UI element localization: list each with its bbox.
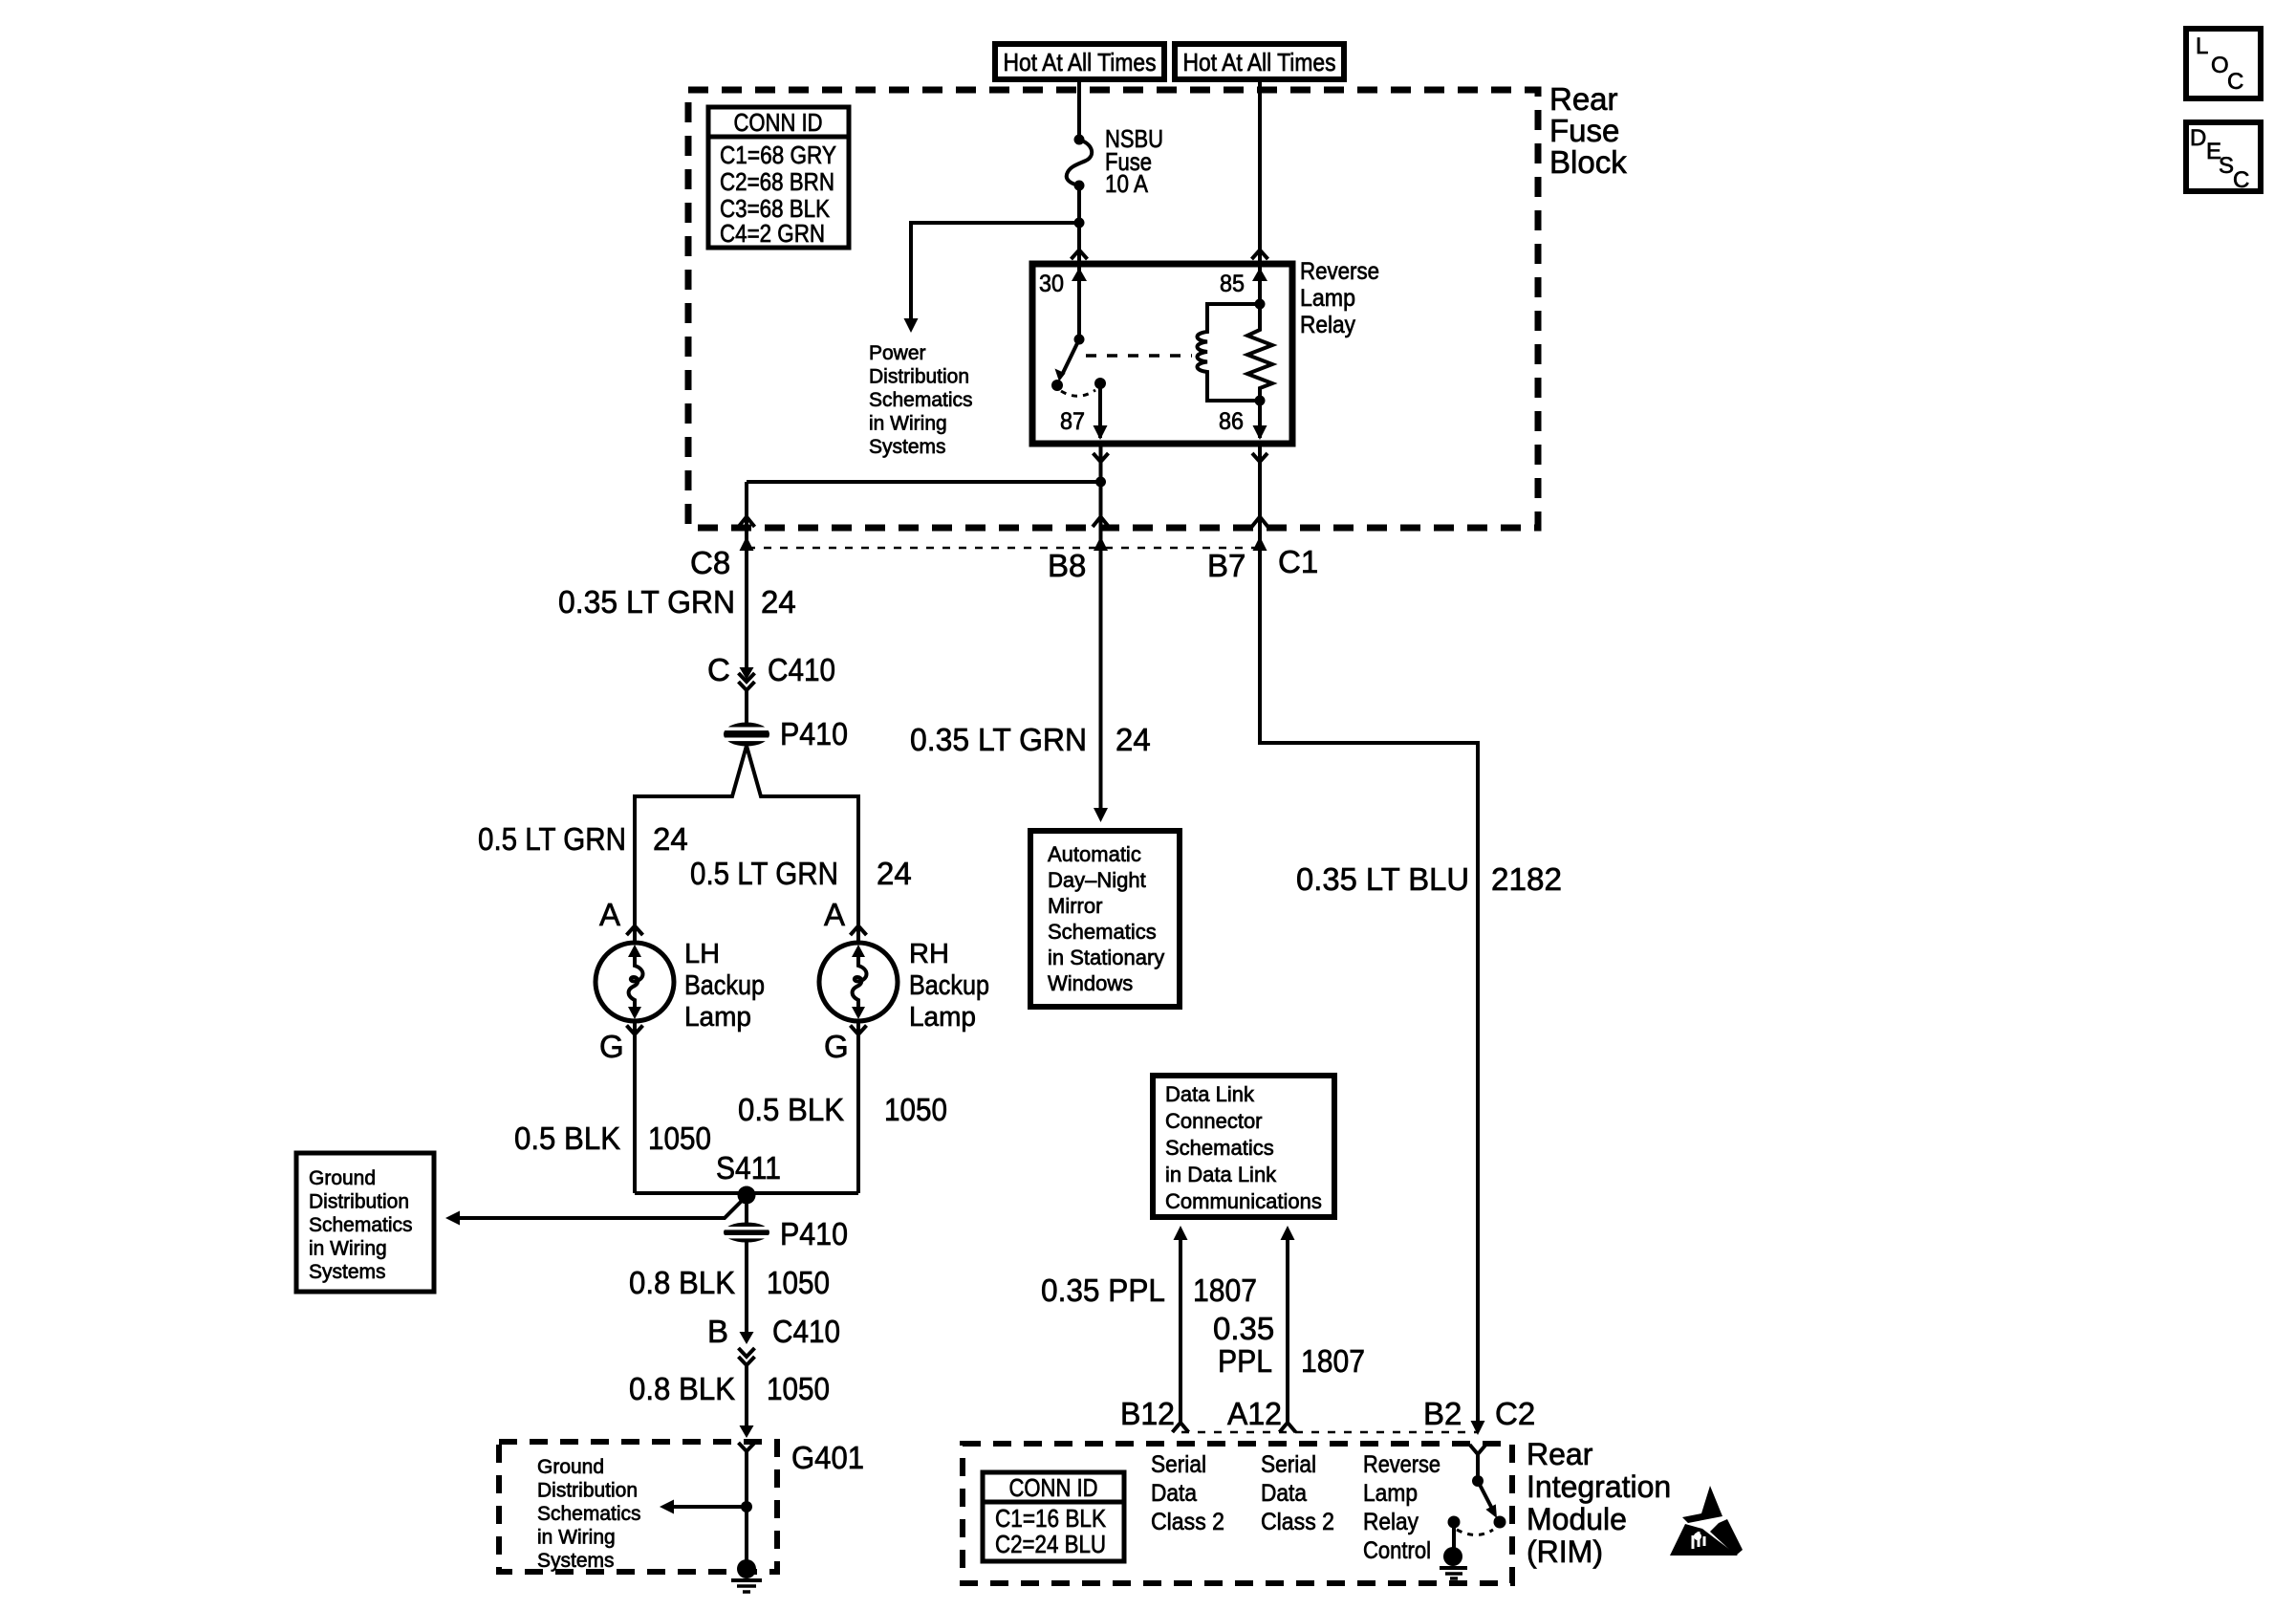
fuse NSBU 10A xyxy=(1067,124,1163,198)
relay resistor xyxy=(1247,304,1272,401)
svg-text:2182: 2182 xyxy=(1491,861,1562,897)
svg-text:C1=16 BLK: C1=16 BLK xyxy=(995,1504,1107,1533)
svg-text:Data: Data xyxy=(1151,1480,1197,1507)
svg-text:Ground: Ground xyxy=(309,1167,376,1189)
svg-text:Integration: Integration xyxy=(1527,1469,1671,1504)
svg-text:Distribution: Distribution xyxy=(309,1191,409,1213)
svg-text:Communications: Communications xyxy=(1165,1189,1322,1213)
svg-text:A: A xyxy=(824,897,845,932)
wire B12 serial data up to data link box xyxy=(1179,1239,1182,1422)
wire P410 to C410 lower xyxy=(745,1242,748,1332)
svg-text:C410: C410 xyxy=(768,652,835,687)
reverse lamp relay label xyxy=(1300,258,1379,338)
svg-text:86: 86 xyxy=(1219,408,1244,435)
wire hot2 down to relay pin 85 xyxy=(1258,79,1262,267)
svg-text:C: C xyxy=(707,652,730,687)
svg-text:Ground: Ground xyxy=(537,1456,604,1478)
junction node below fuse xyxy=(1074,218,1085,228)
svg-text:Distribution: Distribution xyxy=(869,366,969,388)
chevron at RH lamp pin A xyxy=(851,926,867,936)
svg-text:RH: RH xyxy=(909,939,949,969)
grommet P410 (upper) xyxy=(724,723,769,747)
svg-text:0.35 LT GRN: 0.35 LT GRN xyxy=(910,722,1087,757)
connector line (thin dashed) B12-A12-B2 xyxy=(1181,1431,1478,1434)
svg-text:Connector: Connector xyxy=(1165,1109,1263,1133)
svg-text:0.35 LT GRN: 0.35 LT GRN xyxy=(558,584,735,620)
relay contact dot 87 xyxy=(1094,378,1106,389)
RIM switch throw dashed arc xyxy=(1457,1530,1493,1535)
wire A12 serial data up to data link box xyxy=(1286,1239,1289,1422)
grommet P410 (lower) xyxy=(724,1223,769,1243)
svg-text:CONN ID: CONN ID xyxy=(734,108,823,137)
connector line (thin dashed) C8-B8-B7 xyxy=(747,547,1260,550)
svg-text:C2=68 BRN: C2=68 BRN xyxy=(720,167,834,196)
label serial data class 2 (B12) xyxy=(1151,1451,1224,1535)
arrow to ground distribution schematics (S411) xyxy=(445,1211,460,1226)
svg-text:C4=2 GRN: C4=2 GRN xyxy=(720,219,825,248)
RIM switch pivot dot xyxy=(1472,1475,1484,1487)
label serial data class 2 (A12) xyxy=(1261,1451,1334,1535)
ground distribution dashed box G401 xyxy=(499,1442,777,1572)
svg-text:10 A: 10 A xyxy=(1105,169,1149,198)
svg-text:D: D xyxy=(2190,125,2206,151)
chevron at fuse block border C8 xyxy=(739,517,755,528)
svg-text:CONN ID: CONN ID xyxy=(1009,1473,1098,1502)
RIM switch arm with arrow xyxy=(1478,1481,1492,1509)
svg-text:Module: Module xyxy=(1527,1502,1627,1536)
chevron below relay pin 86 xyxy=(1252,453,1267,462)
svg-text:30: 30 xyxy=(1039,271,1064,297)
svg-text:0.5 LT GRN: 0.5 LT GRN xyxy=(478,821,626,857)
chevron below relay pin 87 xyxy=(1094,453,1109,462)
svg-text:O: O xyxy=(2211,53,2229,78)
wire relay 86 down through B7 then right and down to RIM C2 xyxy=(1260,444,1478,1421)
hot at all times box 2 xyxy=(1175,44,1344,79)
chevron at RIM border B12 xyxy=(1173,1423,1189,1432)
svg-text:Lamp: Lamp xyxy=(1300,285,1355,312)
svg-text:L: L xyxy=(2196,33,2208,59)
svg-text:C410: C410 xyxy=(772,1314,840,1349)
wire LH lamp down to S411 bus xyxy=(633,1021,637,1193)
relay contact dot 87a xyxy=(1051,380,1063,391)
chevron at LH lamp pin G xyxy=(627,1026,643,1035)
relay switch pivot xyxy=(1074,335,1085,345)
svg-text:in Wiring: in Wiring xyxy=(309,1238,387,1260)
svg-text:85: 85 xyxy=(1220,271,1245,297)
svg-text:Fuse: Fuse xyxy=(1549,113,1619,148)
svg-text:in Stationary: in Stationary xyxy=(1048,946,1164,969)
conn id table (RIM) xyxy=(983,1472,1124,1561)
svg-text:0.35 PPL: 0.35 PPL xyxy=(1041,1273,1165,1308)
svg-text:24: 24 xyxy=(653,821,688,857)
relay box (reverse lamp relay) xyxy=(1032,264,1292,444)
label LH backup lamp xyxy=(684,939,765,1033)
relay switch arm with arrow xyxy=(1063,339,1079,373)
wire relay 87 down through B8 to mirror arrow xyxy=(1099,444,1103,809)
desc reference box xyxy=(2186,122,2261,193)
chevron at LH lamp pin A xyxy=(627,926,643,936)
svg-text:Rear: Rear xyxy=(1527,1437,1593,1471)
svg-text:S411: S411 xyxy=(716,1150,781,1186)
chevron below RIM border C2 xyxy=(1470,1445,1486,1454)
svg-text:0.8 BLK: 0.8 BLK xyxy=(629,1371,735,1406)
svg-text:S: S xyxy=(2219,153,2234,179)
svg-text:B7: B7 xyxy=(1207,548,1245,583)
svg-text:0.8 BLK: 0.8 BLK xyxy=(629,1265,735,1300)
svg-text:in Wiring: in Wiring xyxy=(869,413,947,435)
junction node B8/C8 xyxy=(1095,477,1106,488)
ground symbol G401 xyxy=(731,1559,762,1592)
arrow to power distribution schematics xyxy=(904,318,919,333)
svg-text:Backup: Backup xyxy=(684,970,765,1001)
svg-text:G: G xyxy=(599,1029,624,1064)
wire junction left to C8 drop xyxy=(747,480,1101,484)
loc reference box xyxy=(2186,29,2261,98)
svg-text:Rear: Rear xyxy=(1549,81,1618,117)
relay pin 30 arrow up xyxy=(1077,267,1081,339)
wire RH lamp down to S411 bus xyxy=(856,1021,860,1193)
RIM switch moving contact dot xyxy=(1494,1516,1506,1529)
power distribution schematics text xyxy=(869,342,973,458)
svg-text:0.5 LT GRN: 0.5 LT GRN xyxy=(690,856,838,891)
svg-text:87: 87 xyxy=(1060,408,1085,435)
svg-text:1050: 1050 xyxy=(767,1371,830,1406)
svg-text:Power: Power xyxy=(869,342,926,364)
rear integration module dashed box xyxy=(963,1444,1512,1583)
svg-text:Schematics: Schematics xyxy=(869,389,973,411)
ground symbol RIM xyxy=(1440,1547,1467,1578)
svg-text:B2: B2 xyxy=(1423,1396,1462,1431)
wire C2 to switch xyxy=(1476,1454,1480,1481)
svg-text:A: A xyxy=(599,897,620,932)
svg-text:Control: Control xyxy=(1363,1537,1431,1564)
svg-text:1050: 1050 xyxy=(884,1092,947,1127)
svg-text:Hot At All Times: Hot At All Times xyxy=(1004,48,1157,76)
rear integration module (RIM) label xyxy=(1527,1437,1671,1569)
relay pin 85 arrow up xyxy=(1252,268,1267,281)
wire C410 to G401 xyxy=(745,1365,748,1425)
svg-text:Block: Block xyxy=(1549,144,1627,180)
wire junction to power distribution arrow xyxy=(911,223,1079,319)
svg-text:Lamp: Lamp xyxy=(1363,1480,1418,1507)
arrow into G401 xyxy=(740,1425,754,1438)
svg-text:1050: 1050 xyxy=(767,1265,830,1300)
svg-text:Data Link: Data Link xyxy=(1165,1082,1255,1106)
svg-text:Hot At All Times: Hot At All Times xyxy=(1183,48,1336,76)
svg-text:Reverse: Reverse xyxy=(1363,1451,1440,1478)
svg-text:1050: 1050 xyxy=(648,1120,711,1156)
svg-text:Data: Data xyxy=(1261,1480,1307,1507)
svg-text:LH: LH xyxy=(684,939,720,969)
svg-text:in Wiring: in Wiring xyxy=(537,1527,616,1549)
wire inside G401 down to ground xyxy=(745,1451,748,1560)
wire split below P410 to both backup lamps xyxy=(635,746,858,943)
relay switch throw dashed arc xyxy=(1061,390,1095,396)
svg-text:C2: C2 xyxy=(1495,1396,1535,1431)
wire S411 down to P410 lower xyxy=(745,1195,748,1223)
wire C410 to P410 xyxy=(745,690,748,723)
arrow B8 into mirror box xyxy=(1094,808,1108,822)
chevron at RIM border A12 xyxy=(1280,1423,1296,1432)
svg-text:Automatic: Automatic xyxy=(1048,842,1141,866)
wire C8 down to connector C410 xyxy=(745,482,748,668)
svg-text:in Data Link: in Data Link xyxy=(1165,1163,1277,1186)
svg-text:0.35: 0.35 xyxy=(1213,1311,1274,1346)
chevron at fuse block border B8 xyxy=(1093,517,1109,528)
svg-text:B12: B12 xyxy=(1120,1396,1175,1431)
svg-text:Schematics: Schematics xyxy=(537,1503,641,1525)
svg-text:24: 24 xyxy=(761,584,796,620)
relay mechanical link dashed line xyxy=(1086,354,1192,358)
svg-text:24: 24 xyxy=(1116,722,1151,757)
in-line connector C410 arrow and chevrons xyxy=(740,667,754,680)
svg-text:Relay: Relay xyxy=(1363,1509,1419,1535)
rear fuse block dashed border xyxy=(688,90,1538,528)
svg-text:G401: G401 xyxy=(791,1440,864,1475)
relay pin 86 arrow down xyxy=(1258,401,1262,438)
svg-text:Lamp: Lamp xyxy=(909,1002,976,1033)
svg-text:Class 2: Class 2 xyxy=(1261,1509,1334,1535)
splice S411 xyxy=(738,1186,756,1205)
wire hot1 down to fuse xyxy=(1077,79,1081,140)
arrow left inside G401 xyxy=(673,1505,747,1509)
wire S411 diagonal to ground distribution arrow xyxy=(459,1201,742,1218)
in-line connector C410 lower arrow and chevrons xyxy=(740,1332,754,1344)
svg-text:PPL: PPL xyxy=(1218,1343,1272,1379)
svg-text:0.5 BLK: 0.5 BLK xyxy=(514,1120,620,1156)
wire fuse to junction and relay pin 30 xyxy=(1077,185,1081,264)
svg-text:C: C xyxy=(2227,69,2243,95)
svg-text:P410: P410 xyxy=(780,716,848,751)
svg-text:C: C xyxy=(2233,167,2249,193)
conn id table (rear fuse block) xyxy=(708,107,849,248)
label reverse lamp relay control xyxy=(1363,1451,1440,1564)
chevron at relay pin 30 xyxy=(1072,250,1088,260)
relay coil xyxy=(1198,304,1261,401)
rear fuse block label xyxy=(1549,81,1627,180)
RIM switch fixed contact dot xyxy=(1448,1516,1461,1529)
svg-text:C2=24 BLU: C2=24 BLU xyxy=(995,1530,1106,1558)
ground bus to splice S411 xyxy=(635,1191,858,1195)
relay pin 87 arrow down xyxy=(1098,383,1102,438)
svg-text:Serial: Serial xyxy=(1151,1451,1206,1478)
svg-text:Relay: Relay xyxy=(1300,312,1355,338)
svg-text:Systems: Systems xyxy=(309,1261,386,1283)
chevron at G401 border xyxy=(739,1443,755,1451)
svg-text:Serial: Serial xyxy=(1261,1451,1316,1478)
svg-text:C1=68 GRY: C1=68 GRY xyxy=(720,141,836,169)
svg-text:Reverse: Reverse xyxy=(1300,258,1379,285)
svg-text:1807: 1807 xyxy=(1301,1343,1365,1379)
svg-text:Distribution: Distribution xyxy=(537,1480,638,1502)
junction node in G401 xyxy=(741,1501,752,1512)
arrow C2 into RIM xyxy=(1471,1421,1485,1435)
arrow up below border B7 xyxy=(1253,536,1267,551)
svg-text:24: 24 xyxy=(877,856,912,891)
svg-text:0.5 BLK: 0.5 BLK xyxy=(738,1092,844,1127)
svg-text:Systems: Systems xyxy=(537,1550,615,1572)
svg-text:Backup: Backup xyxy=(909,970,989,1001)
svg-text:Schematics: Schematics xyxy=(309,1214,413,1236)
ESD sensitive device symbol xyxy=(1670,1486,1743,1556)
hot at all times box 1 xyxy=(995,44,1164,79)
svg-text:Class 2: Class 2 xyxy=(1151,1509,1224,1535)
svg-text:B8: B8 xyxy=(1048,548,1086,583)
svg-text:Windows: Windows xyxy=(1048,971,1133,995)
LH backup lamp xyxy=(596,943,674,1021)
svg-text:Schematics: Schematics xyxy=(1165,1136,1274,1160)
svg-text:Mirror: Mirror xyxy=(1048,894,1102,918)
svg-text:C8: C8 xyxy=(690,545,730,580)
svg-text:C1: C1 xyxy=(1278,544,1318,579)
label RH backup lamp xyxy=(909,939,989,1033)
svg-text:P410: P410 xyxy=(780,1216,848,1251)
wire contact to ground (RIM) xyxy=(1452,1522,1456,1550)
chevron at RH lamp pin G xyxy=(851,1026,867,1035)
svg-text:(RIM): (RIM) xyxy=(1527,1534,1603,1569)
data link connector box xyxy=(1153,1076,1334,1217)
automatic day-night mirror box xyxy=(1030,831,1180,1007)
svg-text:G: G xyxy=(824,1029,849,1064)
svg-text:B: B xyxy=(707,1314,728,1349)
svg-text:A12: A12 xyxy=(1227,1396,1282,1431)
svg-text:0.35 LT BLU: 0.35 LT BLU xyxy=(1296,861,1469,897)
arrow up below border C8 xyxy=(740,536,754,551)
arrow up below border B8 xyxy=(1094,536,1108,551)
svg-text:1807: 1807 xyxy=(1193,1273,1257,1308)
svg-text:Schematics: Schematics xyxy=(1048,920,1157,944)
chevron at fuse block border B7 xyxy=(1252,517,1268,528)
svg-text:Systems: Systems xyxy=(869,436,946,458)
svg-text:Day–Night: Day–Night xyxy=(1048,868,1146,892)
svg-text:Lamp: Lamp xyxy=(684,1002,751,1033)
ground distribution schematics box (solid) xyxy=(296,1153,434,1292)
chevron at relay pin 85 xyxy=(1252,250,1268,260)
RH backup lamp xyxy=(819,943,898,1021)
